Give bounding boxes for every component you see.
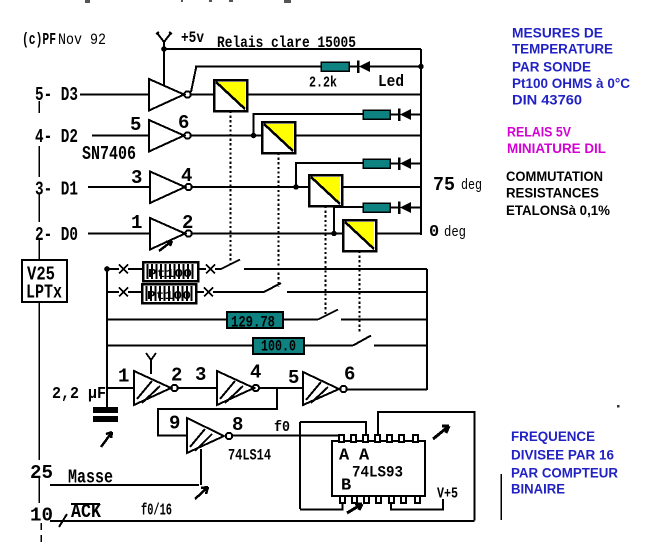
inverter U2 74LS14 <box>187 418 232 453</box>
wire D0 output <box>192 233 343 235</box>
wire output loop to ACK <box>378 412 475 521</box>
inverter U1C <box>150 172 192 204</box>
svg-text:3- D1: 3- D1 <box>35 179 78 201</box>
resistor R 129.78 <box>227 312 283 332</box>
svg-text:PAR SONDE: PAR SONDE <box>512 60 591 75</box>
switch arm A <box>215 260 240 270</box>
row B wire right <box>287 291 427 293</box>
svg-text:MESURES DE: MESURES DE <box>512 26 603 41</box>
arrow mark top pins <box>433 426 449 439</box>
capacitor C1 <box>93 407 118 422</box>
wire <box>198 268 206 270</box>
svg-text:B: B <box>341 477 351 496</box>
wire LED branch 2 <box>254 114 364 136</box>
svg-text:129.78: 129.78 <box>231 314 275 332</box>
svg-text:4: 4 <box>250 362 261 384</box>
annotation MESURES <box>512 26 630 108</box>
svg-text:+5v: +5v <box>181 29 204 47</box>
row C wire left <box>107 319 227 321</box>
wire LED branch 4 <box>334 207 363 234</box>
relay K2 <box>262 122 295 153</box>
row A wire left <box>107 268 119 270</box>
svg-text:5: 5 <box>288 367 299 389</box>
svg-text:2- D0: 2- D0 <box>35 224 78 246</box>
arrow mark under U1D <box>159 241 172 251</box>
svg-text:MINIATURE DIL: MINIATURE DIL <box>507 141 606 156</box>
dashed linkage K2 <box>278 153 280 287</box>
node +5V junction dot <box>161 46 167 52</box>
wire <box>128 291 204 293</box>
row C wire right <box>341 319 427 321</box>
V25 LPTx box <box>22 260 67 302</box>
svg-text:75: 75 <box>433 174 455 196</box>
wire below V25 <box>38 302 40 503</box>
svg-text:1: 1 <box>118 366 129 388</box>
node left rail top dot <box>104 266 110 272</box>
svg-text:DIVISEE PAR 16: DIVISEE PAR 16 <box>511 448 614 463</box>
resistor R4 <box>363 203 390 212</box>
left connector pin column dashes <box>38 101 40 260</box>
node LED3 tap dot <box>293 184 299 190</box>
svg-text:Pt100: Pt100 <box>148 267 192 281</box>
wire gate9 to Masse <box>200 449 202 485</box>
svg-text:BINAIRE: BINAIRE <box>511 482 565 497</box>
relay K4 <box>343 220 376 251</box>
svg-text:5- D3: 5- D3 <box>35 84 78 106</box>
svg-text:Pt100 OHMS à 0°C: Pt100 OHMS à 0°C <box>512 76 630 91</box>
svg-text:0: 0 <box>429 223 439 242</box>
svg-text:100.0: 100.0 <box>261 338 296 356</box>
diode LED1 <box>349 61 421 74</box>
resistor R1 2.2k <box>321 62 349 71</box>
wire D2 input <box>92 135 149 137</box>
svg-text:6: 6 <box>178 112 189 134</box>
wire Masse <box>50 484 199 486</box>
wire QA bottom link <box>300 503 343 510</box>
X mark A1 <box>119 265 128 274</box>
svg-text:RESISTANCES: RESISTANCES <box>506 186 599 201</box>
svg-text:f0: f0 <box>274 419 290 436</box>
inverter U1A <box>149 79 191 111</box>
wire QA loop vertical <box>299 422 301 509</box>
node LED4 tap dot <box>331 231 337 237</box>
svg-text:LPTx: LPTx <box>26 282 62 304</box>
X mark A2 <box>206 265 215 274</box>
resistor R 100.0 <box>253 338 304 356</box>
annotation RELAIS <box>507 125 606 157</box>
resistor Pt100 B <box>142 284 196 303</box>
wire V+5 <box>391 499 443 510</box>
wire T3 out to rail <box>347 389 427 391</box>
svg-text:8: 8 <box>232 414 243 436</box>
wire K1 through line <box>247 94 421 96</box>
top cropped text fragments <box>85 0 291 3</box>
svg-text:Relais clare 15005: Relais clare 15005 <box>217 34 356 52</box>
wire D1 input <box>88 186 150 188</box>
svg-text:deg: deg <box>444 224 466 241</box>
wire f0 to counter <box>233 435 341 437</box>
svg-text:COMMUTATION: COMMUTATION <box>506 169 603 184</box>
row B wire left <box>107 291 119 293</box>
arrow mark under C1 <box>101 432 112 447</box>
stray vertical segment <box>500 474 502 520</box>
wire D2 output <box>191 135 262 137</box>
tick mark on ACK <box>59 514 67 527</box>
wire T1-T2 <box>178 387 217 389</box>
svg-text:25: 25 <box>30 462 53 484</box>
wire feedback to gate9 <box>158 388 277 436</box>
dashed linkage K3 <box>325 206 327 314</box>
annotation FREQUENCE <box>511 429 618 497</box>
relay K3 <box>309 175 342 206</box>
svg-text:RELAIS 5V: RELAIS 5V <box>507 125 571 140</box>
svg-text:Led: Led <box>378 73 404 92</box>
switch arm D <box>353 336 371 346</box>
wire network right rail <box>426 269 428 390</box>
+5V antenna symbol <box>156 32 172 85</box>
wire LED branch 1 jog <box>191 67 321 93</box>
wire right +5V vertical rail <box>420 49 422 235</box>
wire T1 input <box>107 387 134 389</box>
svg-text:2,2 µF: 2,2 µF <box>52 385 106 404</box>
svg-text:PAR COMPTEUR: PAR COMPTEUR <box>511 466 618 481</box>
arrow mark bottom pins <box>347 504 362 513</box>
resistor Pt100 A <box>143 262 198 281</box>
wire D0 input <box>88 233 150 235</box>
wire <box>283 319 318 321</box>
wire top +5V rail <box>164 48 421 50</box>
svg-text:5: 5 <box>130 114 141 136</box>
svg-text:(c)PF: (c)PF <box>22 31 56 50</box>
svg-text:74LS14: 74LS14 <box>228 447 271 465</box>
inverter T1 <box>134 371 178 405</box>
wire network left rail <box>106 269 108 407</box>
svg-text:2: 2 <box>171 365 182 387</box>
svg-text:f0/16: f0/16 <box>141 502 172 521</box>
X mark B2 <box>204 288 213 297</box>
svg-text:3: 3 <box>131 167 142 189</box>
pins top <box>339 435 418 442</box>
svg-text:A: A <box>339 447 350 466</box>
svg-text:10: 10 <box>30 505 53 527</box>
antenna above T1 <box>146 353 156 374</box>
svg-text:4- D2: 4- D2 <box>35 126 78 148</box>
X mark B1 <box>119 288 128 297</box>
dashes below pin10 <box>40 523 42 542</box>
wire ACK <box>50 520 475 522</box>
wire K3 to rail <box>342 186 421 188</box>
svg-text:1: 1 <box>131 212 142 234</box>
wire D3 input <box>80 94 149 96</box>
node rail junction dot <box>418 64 424 70</box>
svg-text:deg: deg <box>461 177 482 194</box>
arrow mark Masse end <box>195 487 208 499</box>
row A wire right <box>244 268 427 270</box>
svg-text:DIN 43760: DIN 43760 <box>512 93 582 108</box>
wire LED branch 3 <box>296 163 363 187</box>
pins bottom <box>340 496 420 503</box>
wire D3 output to relay <box>191 94 214 96</box>
svg-text:6: 6 <box>344 364 355 386</box>
switch arm C <box>318 310 338 320</box>
inverter U1D <box>150 218 192 250</box>
diode LED2 <box>390 109 421 122</box>
svg-text:V+5: V+5 <box>437 486 458 503</box>
relay K1 <box>214 80 247 111</box>
svg-text:74LS93: 74LS93 <box>352 464 403 482</box>
resistor R3 <box>363 159 390 168</box>
stray dot <box>617 405 620 408</box>
wire T2-T3 <box>259 387 303 389</box>
annotation COMMUTATION <box>506 169 610 218</box>
row D wire left <box>107 345 253 347</box>
counter U3 74LS93 body <box>332 441 425 496</box>
inverter T3 <box>303 372 347 405</box>
svg-text:2.2k: 2.2k <box>309 75 337 92</box>
svg-text:3: 3 <box>195 364 206 386</box>
wire K4 to rail <box>376 233 421 235</box>
svg-text:SN7406: SN7406 <box>82 143 136 165</box>
svg-text:9: 9 <box>169 413 180 435</box>
row D wire right <box>374 345 427 347</box>
svg-text:Nov 92: Nov 92 <box>58 31 106 49</box>
wire D1 output <box>192 186 309 188</box>
switch arm B <box>213 283 281 292</box>
diode LED3 <box>390 158 421 171</box>
svg-text:ETALONSà 0,1%: ETALONSà 0,1% <box>506 203 610 218</box>
inverter T2 <box>217 371 259 405</box>
resistor R2 <box>363 110 390 119</box>
svg-text:TEMPERATURE: TEMPERATURE <box>512 42 613 57</box>
svg-text:FREQUENCE: FREQUENCE <box>511 429 595 444</box>
wire K2 to rail <box>295 135 421 137</box>
svg-text:Pt100: Pt100 <box>147 289 191 303</box>
diode LED4 <box>390 202 421 215</box>
dashed linkage K1 <box>230 111 232 264</box>
inverter U1B <box>149 120 191 152</box>
wire <box>128 268 143 270</box>
wire <box>304 345 353 347</box>
dashed linkage K4 <box>359 251 361 334</box>
node LED2 tap dot <box>251 133 257 139</box>
wire QA top link <box>300 422 366 435</box>
